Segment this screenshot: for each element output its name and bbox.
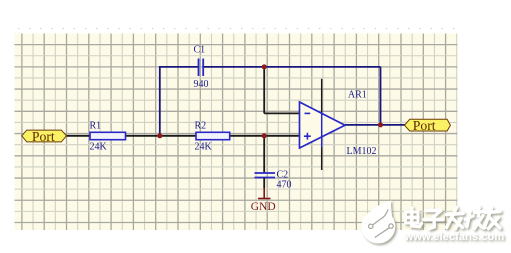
svg-text:Port: Port (32, 129, 55, 144)
dian (406, 212, 419, 223)
svg-text:R1: R1 (90, 120, 102, 131)
junction output node dot (378, 122, 383, 127)
opamp AR1 power pin lower (black) (321, 148, 323, 171)
capacitor C1 plates (198, 59, 200, 77)
wire: top feedback left segment to C1 (159, 66, 199, 68)
resistor R1 body (90, 132, 126, 139)
svg-text:www.elecfans.com: www.elecfans.com (404, 231, 505, 243)
wire: opamp output to feedback node (345, 124, 381, 126)
svg-text:24K: 24K (90, 142, 108, 153)
junction top node dot (262, 64, 267, 69)
op-amp internal vertical line (blue) (321, 112, 323, 148)
svg-text:LM102: LM102 (347, 146, 377, 157)
wire: top feedback right segment from C1 (203, 66, 380, 68)
svg-text:940: 940 (194, 79, 209, 90)
capacitor C2 plates (255, 172, 276, 174)
svg-text:GND: GND (251, 201, 276, 213)
wire: branch down from top wire to - input (263, 67, 265, 114)
wire: port1 to R1 (64, 135, 90, 137)
schematic sheet background (15, 34, 458, 231)
junction node A dot (157, 133, 162, 138)
wire: R1 to R2 (126, 135, 197, 137)
fa (447, 214, 464, 215)
op-amp minus sign (305, 112, 311, 114)
shao (467, 212, 470, 227)
resistor R2 body (196, 132, 230, 139)
svg-text:24K: 24K (195, 142, 213, 153)
svg-text:470: 470 (277, 180, 292, 191)
svg-text:Port: Port (413, 118, 436, 133)
faint sheet border ghost line (18, 28, 456, 30)
ground GND power port (263, 188, 265, 199)
svg-text:C1: C1 (194, 45, 206, 56)
op-amp AR1 triangle body (300, 102, 346, 148)
opamp AR1 power pin upper (black) (321, 79, 323, 112)
wire: feedback node to port2 (381, 124, 406, 126)
junction node B dot (262, 133, 267, 138)
watermark chinese characters (stylized strokes) (406, 208, 501, 229)
wire: feedback vertical down to output node (380, 67, 382, 125)
wire: horizontal into - input (264, 112, 299, 114)
svg-text:AR1: AR1 (348, 90, 367, 101)
wire: C2 to GND (263, 178, 265, 189)
wire: R2 to opamp + input (230, 135, 300, 137)
port P1 (input) (22, 130, 67, 142)
you (486, 212, 501, 213)
wire: vertical from node A up to feedback (C1) (159, 67, 161, 136)
svg-text:R2: R2 (195, 120, 207, 131)
wire: node B down to C2 (263, 136, 265, 173)
op-amp plus sign (304, 135, 311, 137)
port P2 (output) (405, 119, 451, 131)
watermark logo icon (361, 200, 395, 243)
zi (426, 211, 442, 217)
